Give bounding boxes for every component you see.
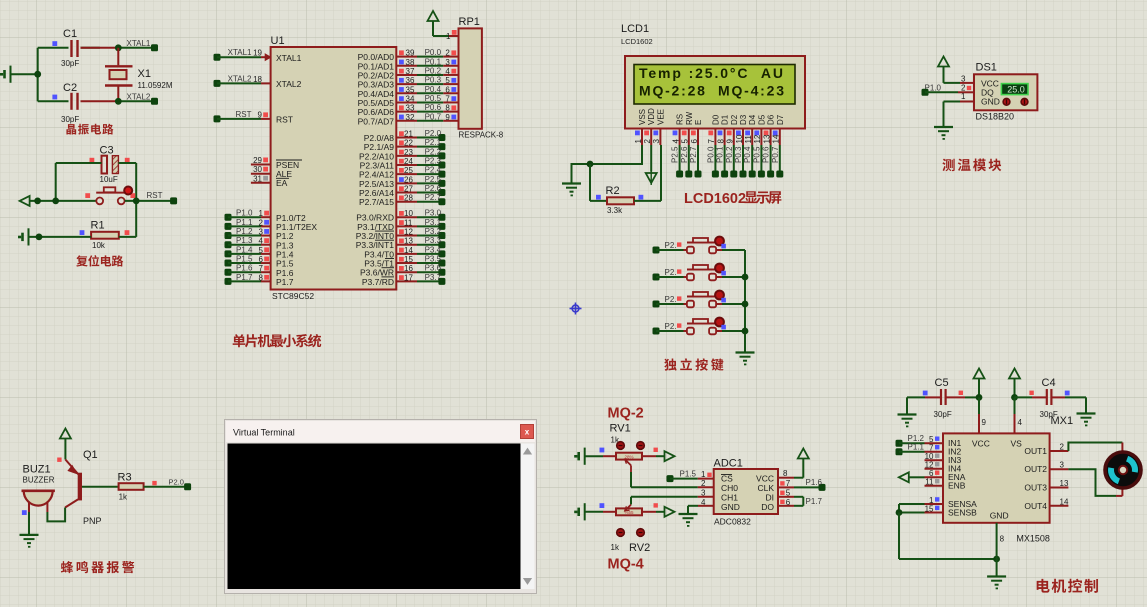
svg-text:23: 23 — [404, 148, 413, 157]
svg-text:P2.7: P2.7 — [425, 193, 442, 202]
svg-text:P2.: P2. — [665, 295, 677, 304]
svg-text:MQ-2: MQ-2 — [608, 406, 644, 422]
svg-text:1: 1 — [961, 92, 966, 101]
svg-text:P1.3: P1.3 — [236, 236, 253, 245]
svg-text:P0.3: P0.3 — [425, 76, 442, 85]
svg-text:8: 8 — [445, 104, 450, 113]
svg-text:P1.6: P1.6 — [806, 478, 823, 487]
svg-text:33: 33 — [406, 104, 415, 113]
svg-text:OUT4: OUT4 — [1024, 501, 1047, 511]
svg-text:P0.7: P0.7 — [771, 146, 780, 163]
svg-text:11: 11 — [744, 135, 753, 144]
svg-text:14: 14 — [772, 134, 781, 143]
svg-text:VEE: VEE — [656, 109, 665, 125]
svg-text:1: 1 — [259, 209, 264, 218]
svg-text:21: 21 — [404, 130, 413, 139]
svg-text:EA: EA — [276, 178, 288, 188]
svg-text:P1.1: P1.1 — [236, 218, 253, 227]
svg-text:Q1: Q1 — [83, 449, 98, 461]
svg-text:5: 5 — [445, 76, 450, 85]
svg-text:DS1: DS1 — [976, 62, 997, 74]
svg-text:XTAL2: XTAL2 — [228, 74, 252, 83]
svg-text:P1.4: P1.4 — [236, 245, 253, 254]
svg-text:PNP: PNP — [83, 516, 102, 526]
svg-text:3: 3 — [445, 58, 450, 67]
svg-text:P2.3: P2.3 — [425, 157, 442, 166]
svg-text:LCD1602: LCD1602 — [621, 37, 653, 46]
svg-text:LCD1: LCD1 — [621, 23, 649, 35]
svg-text:XTAL1: XTAL1 — [276, 53, 302, 63]
svg-text:U1: U1 — [271, 35, 285, 47]
svg-text:XTAL2: XTAL2 — [127, 93, 151, 102]
svg-text:30pF: 30pF — [61, 115, 79, 124]
svg-text:34: 34 — [406, 94, 415, 103]
svg-text:C5: C5 — [935, 377, 949, 389]
svg-text:P0.1: P0.1 — [716, 146, 725, 163]
svg-text:R2: R2 — [606, 185, 620, 197]
svg-text:12: 12 — [753, 134, 762, 143]
svg-text:10: 10 — [404, 209, 413, 218]
svg-text:RST: RST — [276, 115, 293, 125]
svg-text:X1: X1 — [138, 68, 151, 80]
svg-text:7: 7 — [259, 264, 264, 273]
svg-text:5: 5 — [259, 246, 264, 255]
svg-text:C1: C1 — [63, 28, 77, 40]
svg-text:6: 6 — [786, 498, 791, 507]
svg-text:P0.6: P0.6 — [762, 146, 771, 163]
svg-text:P2.4: P2.4 — [425, 166, 442, 175]
svg-text:P2.: P2. — [665, 322, 677, 331]
svg-text:P2.5: P2.5 — [425, 175, 442, 184]
svg-text:P0.2: P0.2 — [425, 66, 442, 75]
svg-text:x: x — [525, 428, 530, 437]
svg-text:OUT2: OUT2 — [1024, 464, 1047, 474]
svg-text:37: 37 — [406, 67, 415, 76]
svg-text:14: 14 — [404, 246, 413, 255]
svg-text:30pF: 30pF — [61, 59, 79, 68]
svg-text:P3.2: P3.2 — [425, 227, 442, 236]
svg-text:P1.0: P1.0 — [236, 209, 253, 218]
svg-text:2: 2 — [1060, 443, 1065, 452]
svg-text:18: 18 — [253, 75, 262, 84]
svg-text:VSS: VSS — [638, 109, 647, 125]
svg-text:XTAL1: XTAL1 — [228, 48, 252, 57]
svg-text:13: 13 — [762, 134, 771, 143]
svg-text:31: 31 — [253, 174, 262, 183]
svg-text:2: 2 — [259, 218, 264, 227]
svg-text:D5: D5 — [757, 114, 766, 125]
svg-text:8: 8 — [716, 139, 725, 144]
svg-text:P2.7/A15: P2.7/A15 — [359, 197, 394, 207]
svg-text:15: 15 — [404, 255, 413, 264]
svg-text:1k: 1k — [119, 493, 128, 502]
svg-text:25.0: 25.0 — [1007, 84, 1025, 94]
svg-text:DS18B20: DS18B20 — [976, 112, 1015, 122]
svg-text:P3.7: P3.7 — [425, 273, 442, 282]
svg-text:RESPACK-8: RESPACK-8 — [459, 131, 504, 140]
svg-text:30pF: 30pF — [934, 410, 952, 419]
svg-text:P2.6: P2.6 — [680, 146, 689, 163]
svg-text:P0.4: P0.4 — [743, 146, 752, 163]
svg-text:MQ-2:28 MQ-4:23: MQ-2:28 MQ-4:23 — [639, 83, 784, 99]
svg-text:P3.0: P3.0 — [425, 209, 442, 218]
svg-text:VS: VS — [1011, 438, 1023, 448]
svg-text:1: 1 — [634, 139, 643, 144]
svg-text:R3: R3 — [118, 472, 132, 484]
svg-text:15: 15 — [925, 504, 934, 513]
svg-text:VCC: VCC — [972, 438, 990, 448]
svg-text:3: 3 — [1060, 461, 1065, 470]
svg-text:4: 4 — [445, 67, 450, 76]
svg-text:VCC: VCC — [756, 474, 774, 484]
svg-text:3: 3 — [259, 228, 264, 237]
svg-text:29: 29 — [253, 156, 262, 165]
svg-text:8: 8 — [259, 273, 264, 282]
svg-text:XTAL2: XTAL2 — [276, 79, 302, 89]
svg-text:R1: R1 — [91, 220, 105, 232]
svg-text:P0.5: P0.5 — [425, 94, 442, 103]
svg-text:CS: CS — [721, 474, 733, 484]
svg-text:P2.2: P2.2 — [425, 147, 442, 156]
svg-text:RST: RST — [236, 110, 252, 119]
svg-text:9: 9 — [445, 113, 450, 122]
svg-text:DO: DO — [761, 502, 774, 512]
svg-text:2: 2 — [701, 479, 706, 488]
svg-text:3: 3 — [652, 139, 661, 144]
svg-text:P0.0: P0.0 — [706, 146, 715, 163]
svg-text:P1.5: P1.5 — [236, 255, 253, 264]
svg-text:D2: D2 — [730, 114, 739, 125]
svg-text:P1.7: P1.7 — [806, 497, 823, 506]
svg-text:11: 11 — [404, 218, 413, 227]
svg-text:RV1: RV1 — [610, 423, 631, 435]
svg-text:6: 6 — [445, 85, 450, 94]
svg-text:GND: GND — [981, 96, 1000, 106]
svg-text:P3.4: P3.4 — [425, 245, 442, 254]
svg-text:2: 2 — [445, 49, 450, 58]
svg-text:RW: RW — [685, 111, 694, 125]
svg-text:P2.7: P2.7 — [689, 146, 698, 163]
svg-text:P2.5: P2.5 — [671, 146, 680, 163]
svg-text:12: 12 — [404, 228, 413, 237]
svg-text:6: 6 — [690, 139, 699, 144]
svg-text:P2.: P2. — [665, 241, 677, 250]
svg-text:CLK: CLK — [757, 483, 774, 493]
svg-text:10: 10 — [735, 134, 744, 143]
svg-text:7: 7 — [707, 139, 716, 144]
svg-text:OUT3: OUT3 — [1024, 483, 1047, 493]
svg-text:ADC1: ADC1 — [714, 458, 743, 470]
svg-text:17: 17 — [404, 273, 413, 282]
svg-text:P3.5: P3.5 — [425, 255, 442, 264]
svg-text:P2.0: P2.0 — [425, 129, 442, 138]
svg-text:CH1: CH1 — [721, 493, 738, 503]
svg-text:C4: C4 — [1042, 377, 1056, 389]
svg-text:2: 2 — [643, 139, 652, 144]
svg-text:MX1508: MX1508 — [1016, 534, 1050, 544]
svg-text:4: 4 — [671, 139, 680, 144]
svg-text:4: 4 — [1018, 418, 1023, 427]
svg-text:RV2: RV2 — [629, 542, 650, 554]
svg-text:P3.6: P3.6 — [425, 264, 442, 273]
svg-text:P0.7: P0.7 — [425, 112, 442, 121]
svg-text:RST: RST — [147, 191, 163, 200]
svg-text:13: 13 — [1060, 479, 1069, 488]
svg-text:ENB: ENB — [948, 481, 966, 491]
svg-text:P1.6: P1.6 — [236, 264, 253, 273]
svg-text:35: 35 — [406, 85, 415, 94]
svg-text:D1: D1 — [721, 114, 730, 125]
svg-text:MX1: MX1 — [1051, 415, 1074, 427]
svg-text:9: 9 — [982, 418, 987, 427]
svg-text:P1.7: P1.7 — [236, 273, 253, 282]
svg-text:C2: C2 — [63, 82, 77, 94]
svg-text:P1.7: P1.7 — [276, 277, 294, 287]
svg-text:39: 39 — [406, 49, 415, 58]
svg-text:11.0592M: 11.0592M — [138, 81, 173, 90]
svg-text:D7: D7 — [776, 114, 785, 125]
svg-text:CH0: CH0 — [721, 483, 738, 493]
svg-text:P2.1: P2.1 — [425, 138, 442, 147]
svg-text:7: 7 — [445, 94, 450, 103]
svg-text:GND: GND — [721, 502, 740, 512]
svg-text:11: 11 — [925, 478, 934, 487]
svg-text:1: 1 — [446, 32, 451, 41]
svg-text:26: 26 — [404, 175, 413, 184]
svg-text:ADC0832: ADC0832 — [714, 517, 751, 527]
svg-text:P0.6: P0.6 — [425, 103, 442, 112]
svg-text:8: 8 — [783, 469, 788, 478]
svg-text:BUZ1: BUZ1 — [23, 464, 51, 476]
svg-text:P1.5: P1.5 — [680, 470, 697, 479]
svg-text:3.3k: 3.3k — [607, 206, 623, 215]
svg-text:P2.: P2. — [665, 268, 677, 277]
svg-text:SENSB: SENSB — [948, 507, 977, 517]
svg-text:6: 6 — [259, 255, 264, 264]
svg-text:16: 16 — [404, 264, 413, 273]
svg-text:STC89C52: STC89C52 — [272, 291, 314, 301]
svg-text:P2.6: P2.6 — [425, 184, 442, 193]
svg-text:10k: 10k — [92, 241, 106, 250]
svg-text:DI: DI — [766, 493, 775, 503]
svg-text:P0.2: P0.2 — [725, 146, 734, 163]
svg-text:5: 5 — [681, 139, 690, 144]
svg-text:OUT1: OUT1 — [1024, 446, 1047, 456]
svg-text:P0.7/AD7: P0.7/AD7 — [358, 116, 395, 126]
svg-text:Temp :25.0°C AU: Temp :25.0°C AU — [639, 65, 783, 81]
svg-text:13: 13 — [404, 237, 413, 246]
svg-text:22: 22 — [404, 139, 413, 148]
svg-text:25: 25 — [404, 166, 413, 175]
svg-text:28: 28 — [404, 194, 413, 203]
svg-text:10uF: 10uF — [100, 175, 118, 184]
svg-text:P0.3: P0.3 — [734, 146, 743, 163]
svg-text:P0.5: P0.5 — [752, 146, 761, 163]
svg-text:38: 38 — [406, 58, 415, 67]
svg-text:P2.0: P2.0 — [169, 478, 184, 487]
svg-text:P1.2: P1.2 — [236, 227, 253, 236]
svg-text:36: 36 — [406, 76, 415, 85]
svg-text:P3.1: P3.1 — [425, 218, 442, 227]
svg-text:P0.1: P0.1 — [425, 57, 442, 66]
svg-text:1k: 1k — [611, 543, 620, 552]
svg-text:Virtual Terminal: Virtual Terminal — [233, 428, 295, 438]
svg-text:27: 27 — [404, 185, 413, 194]
svg-text:P3.7/RD: P3.7/RD — [362, 277, 394, 287]
svg-text:RP1: RP1 — [459, 16, 480, 28]
svg-text:BUZZER: BUZZER — [23, 476, 55, 485]
svg-text:32: 32 — [406, 113, 415, 122]
svg-text:3: 3 — [961, 75, 966, 84]
svg-text:E: E — [694, 120, 703, 125]
svg-text:MQ-4: MQ-4 — [608, 557, 644, 573]
svg-text:LCD1602: LCD1602 — [684, 191, 746, 207]
svg-text:P0.0: P0.0 — [425, 48, 442, 57]
svg-text:8: 8 — [1000, 535, 1005, 544]
svg-text:VDD: VDD — [647, 108, 656, 125]
svg-text:7: 7 — [786, 479, 791, 488]
svg-text:19: 19 — [253, 49, 262, 58]
svg-text:RS: RS — [676, 114, 685, 125]
svg-text:XTAL1: XTAL1 — [127, 39, 151, 48]
svg-text:1: 1 — [701, 470, 706, 479]
svg-text:9: 9 — [726, 139, 735, 144]
svg-text:9: 9 — [258, 110, 263, 119]
svg-text:D6: D6 — [767, 114, 776, 125]
svg-text:5: 5 — [786, 488, 791, 497]
svg-text:24: 24 — [404, 157, 413, 166]
svg-text:14: 14 — [1060, 497, 1069, 506]
svg-text:D4: D4 — [748, 114, 757, 125]
svg-text:30: 30 — [253, 165, 262, 174]
svg-text:P0.4: P0.4 — [425, 85, 442, 94]
svg-text:P1.1: P1.1 — [908, 443, 925, 452]
svg-text:4: 4 — [259, 237, 264, 246]
svg-text:GND: GND — [990, 511, 1009, 521]
svg-text:P3.3: P3.3 — [425, 236, 442, 245]
svg-text:D0: D0 — [711, 114, 720, 125]
svg-text:D3: D3 — [739, 114, 748, 125]
